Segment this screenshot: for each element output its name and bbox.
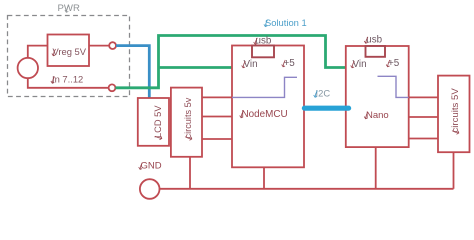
- svg-text:usb: usb: [366, 34, 382, 45]
- wire Nano to circuits5V rung3: [409, 138, 438, 140]
- wire source top to Vreg: [28, 46, 48, 58]
- svg-text:Vin: Vin: [353, 59, 367, 70]
- LCD 5V block: [138, 98, 169, 146]
- svg-text:+5: +5: [388, 58, 400, 69]
- wire NodeMCU to ground: [263, 167, 265, 189]
- NodeMCU U1: [232, 46, 304, 168]
- wire Nano to circuits5V rung2: [409, 116, 438, 118]
- ground terminal: [140, 179, 160, 199]
- wire Vin green net: [115, 36, 345, 88]
- voltage regulator Vreg 5V: [48, 35, 90, 67]
- pin label Vin NodeMCU: [242, 59, 258, 70]
- label PWR: [58, 3, 80, 14]
- pin label usb NodeMCU: [254, 36, 272, 47]
- svg-text:I2C: I2C: [316, 88, 331, 99]
- Nano U2: [346, 46, 409, 147]
- svg-text:Vin: Vin: [244, 59, 258, 70]
- svg-text:circuits 5v: circuits 5v: [183, 97, 193, 138]
- wire 5V blue from upper terminal to LCD: [116, 46, 149, 98]
- wire circuits5v to NodeMCU rung1: [202, 96, 232, 98]
- PWR module dashed boundary: [8, 16, 130, 97]
- svg-text:usb: usb: [256, 36, 272, 47]
- svg-text:NodeMCU: NodeMCU: [242, 109, 288, 120]
- usb notch NodeMCU: [252, 46, 274, 58]
- circuits 5V block right: [438, 76, 470, 153]
- wire circuits5v to NodeMCU rung2: [202, 116, 232, 118]
- internal wire +5 NodeMCU purple: [232, 77, 297, 97]
- label NodeMCU: [240, 109, 288, 120]
- label In 7..12: [51, 74, 83, 85]
- wire source bottom to lower terminal: [28, 78, 109, 87]
- wire Nano to circuits5V rung1: [409, 96, 438, 98]
- terminal pin upper: [109, 42, 116, 49]
- svg-text:GND: GND: [141, 161, 162, 172]
- svg-text:Solution 1: Solution 1: [265, 17, 307, 28]
- svg-text:In 7..12: In 7..12: [52, 74, 83, 85]
- label I2C: [314, 88, 331, 99]
- label circuits 5V (rotated): [450, 88, 461, 135]
- label Solution 1: [264, 17, 307, 28]
- svg-text:+5: +5: [284, 58, 296, 69]
- usb notch Nano: [366, 46, 386, 57]
- pin label +5 NodeMCU: [282, 58, 296, 69]
- svg-text:Nano: Nano: [366, 110, 389, 121]
- circuits 5v block left: [171, 88, 202, 157]
- wire Vreg to terminal: [89, 45, 109, 47]
- pin label +5 Nano: [386, 58, 400, 69]
- ground bus wire: [160, 188, 454, 190]
- label Vreg 5V: [52, 46, 87, 57]
- I2C bus bar: [302, 106, 351, 111]
- power source PS1: [18, 58, 38, 78]
- label LCD 5V (rotated): [153, 105, 163, 140]
- internal wire +5 Nano purple: [378, 76, 409, 97]
- pin label usb Nano: [364, 34, 382, 45]
- wire circuits5V-right to ground: [453, 152, 455, 189]
- wire circuits5v-left to ground: [189, 157, 191, 189]
- wire Nano to ground: [375, 147, 377, 189]
- svg-text:PWR: PWR: [58, 3, 80, 14]
- terminal pin lower: [109, 84, 116, 91]
- svg-text:Vreg 5V: Vreg 5V: [53, 46, 87, 57]
- svg-text:LCD 5V: LCD 5V: [153, 105, 163, 138]
- label circuits 5v (rotated): [183, 97, 193, 140]
- label GND: [139, 161, 162, 172]
- wire circuits5v to NodeMCU rung3: [202, 138, 232, 140]
- label Nano: [364, 110, 389, 121]
- pin label Vin Nano: [351, 59, 367, 70]
- svg-text:circuits 5V: circuits 5V: [450, 88, 461, 133]
